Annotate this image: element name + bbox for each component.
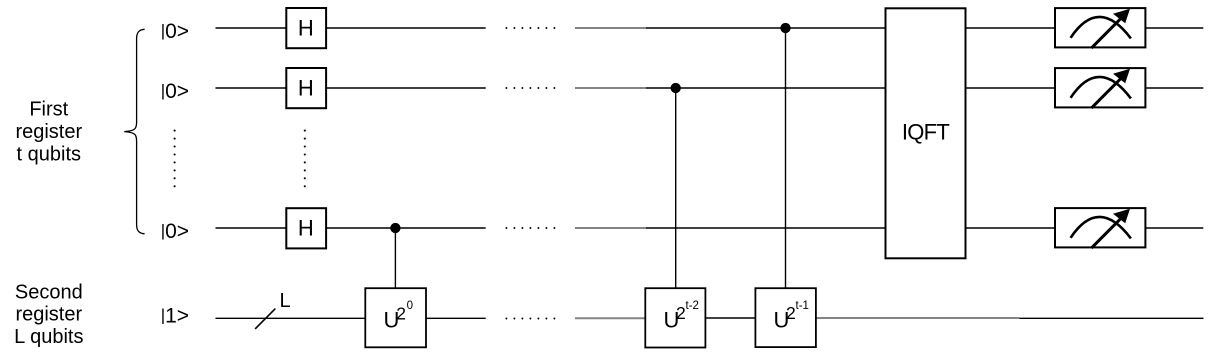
wire q3 segment after H (326, 227, 486, 229)
wire q4 segment after U0 (426, 317, 486, 319)
label: Second register L qubits (14, 281, 83, 348)
svg-text:Second: Second (15, 281, 83, 303)
svg-text:t-1: t-1 (796, 300, 809, 312)
meter q2 arrowhead (1113, 69, 1130, 84)
svg-text:|1>: |1> (161, 305, 189, 328)
brace for first register (124, 29, 144, 234)
wire q3 segment to IQFT (646, 227, 886, 229)
svg-text:First: First (29, 99, 68, 121)
wire q1 segment IQFT to meter (966, 27, 1056, 29)
gate U^2^t-2 label (664, 300, 699, 332)
meter q1 needle (1091, 17, 1122, 48)
meter q1 arrowhead (1113, 9, 1130, 24)
gate U^2^0 box (365, 288, 426, 347)
gate H q3 box (286, 208, 326, 248)
svg-text:H: H (298, 216, 314, 241)
gate H q1 box (286, 8, 326, 48)
svg-text:2: 2 (676, 303, 686, 323)
wire q2 segment IQFT to meter (966, 87, 1056, 89)
ellipsis dots wire q3 (505, 227, 555, 229)
gate H q2 box (286, 68, 326, 108)
control dot on q1 (780, 23, 790, 33)
svg-text:H: H (298, 15, 314, 40)
svg-text:register: register (15, 121, 82, 143)
control dot on q2 (671, 83, 681, 93)
svg-text:t-2: t-2 (686, 300, 699, 312)
svg-text:L qubits: L qubits (14, 326, 83, 348)
wire q1 segment left (216, 27, 287, 29)
wire q2 segment to IQFT (646, 87, 886, 89)
svg-text:t qubits: t qubits (17, 143, 81, 165)
gate U^2^t-1 box (755, 288, 816, 347)
meter q1 gauge arc (1071, 17, 1131, 39)
svg-text:2: 2 (396, 303, 406, 323)
bus slash on wire q4 (255, 309, 275, 329)
svg-text:|0>: |0> (161, 80, 189, 103)
meter q3 gauge arc (1071, 217, 1131, 239)
svg-text:register: register (15, 304, 82, 326)
wire q2 segment after meter (1145, 87, 1203, 89)
svg-text:|0>: |0> (161, 220, 189, 243)
meter q2 needle (1091, 77, 1122, 108)
control dot on q3 (390, 223, 400, 233)
svg-text:IQFT: IQFT (902, 120, 950, 145)
wire q4 segment gray after Ut1 (816, 317, 1020, 319)
wire q3 segment IQFT to meter (966, 227, 1056, 229)
wire q2 segment left (216, 87, 287, 89)
gate U^2^t-1 label (774, 300, 809, 332)
wire q1 segment gray (575, 27, 646, 29)
meter q2 gauge arc (1071, 77, 1131, 99)
control line from q3 to U0 (394, 228, 396, 288)
ellipsis dots wire q1 (505, 27, 555, 29)
wire q3 segment after meter (1145, 227, 1203, 229)
wire q1 segment after meter (1145, 27, 1203, 29)
wire q2 segment after H (326, 87, 486, 89)
wire q4 segment gray (575, 317, 645, 319)
wire q4 segment between U gates (705, 317, 755, 319)
wire q4 segment left (216, 317, 366, 319)
svg-text:L: L (280, 290, 291, 312)
control line from q1 to Ut1 (785, 28, 787, 288)
IQFT box (886, 8, 966, 258)
label: First register t qubits (15, 99, 82, 166)
wire q3 segment gray (575, 227, 646, 229)
wire q1 segment to IQFT (646, 27, 886, 29)
meter q2 box (1055, 68, 1145, 107)
meter q3 arrowhead (1113, 209, 1130, 224)
wire q2 segment gray (575, 87, 646, 89)
wire q1 segment after H (326, 27, 486, 29)
vertical ellipsis between ket labels (174, 130, 176, 188)
ellipsis dots wire q4 (505, 318, 555, 320)
meter q3 box (1055, 208, 1145, 247)
gate U^2^0 label (384, 300, 414, 333)
meter q3 needle (1091, 217, 1122, 248)
wire q3 segment left (216, 227, 287, 229)
vertical ellipsis in H column (304, 130, 306, 188)
svg-text:H: H (298, 75, 314, 100)
meter q1 box (1055, 8, 1145, 47)
wire q4 segment right (1020, 317, 1204, 319)
svg-text:2: 2 (786, 303, 796, 323)
gate U^2^t-2 box (645, 288, 705, 347)
control line from q2 to Ut2 (675, 88, 677, 288)
svg-text:0: 0 (407, 300, 413, 312)
svg-text:|0>: |0> (161, 20, 189, 43)
ellipsis dots wire q2 (505, 87, 555, 89)
